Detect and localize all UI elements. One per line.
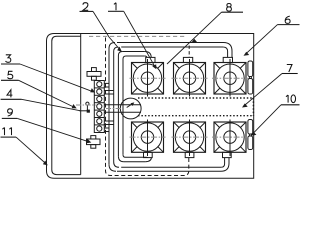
callout leader lines — [16, 11, 282, 164]
pipe P1 right corner down to roller T3 — [224, 43, 233, 58]
leader 9 — [17, 118, 89, 141]
top gray dashed rail — [89, 35, 186, 37]
pipe P1 top run — [117, 42, 224, 44]
conveyor dotted right end — [252, 98, 254, 116]
conveyor dotted top line — [138, 97, 253, 99]
manifold cell dividers — [94, 87, 104, 89]
label 6 — [285, 16, 290, 23]
manifold body — [94, 81, 104, 133]
arrow 2 — [117, 47, 122, 52]
pipe P2 bottom corner — [118, 156, 124, 162]
arrow 6 — [244, 52, 250, 56]
pipe C bottom run to roller B1 — [124, 161, 145, 163]
pipe D bottom run to roller B3 — [117, 170, 221, 172]
roller B3 — [212, 120, 248, 158]
pipe P1 vertical pair — [108, 49, 110, 165]
label 9 — [8, 109, 13, 116]
pump unit — [120, 98, 141, 119]
label 10 — [286, 95, 288, 103]
arrow 8 — [191, 39, 197, 43]
leader 8 — [167, 12, 222, 64]
cross fitting top — [87, 72, 101, 77]
hidden feed to top middle roller (dashed) — [188, 46, 190, 58]
case outer shell — [47, 34, 254, 179]
roller T1 — [130, 57, 166, 96]
case inner wall (left compartment) — [52, 36, 81, 174]
label 5 — [8, 71, 13, 78]
label 3 — [6, 55, 11, 63]
conveyor dotted bottom line — [138, 115, 253, 117]
leader 1 — [124, 11, 155, 67]
leader 3 — [20, 64, 93, 92]
roller T2 — [172, 57, 208, 96]
label 2 — [83, 3, 88, 11]
arrow 10 — [251, 132, 257, 136]
cross fitting bottom — [87, 139, 101, 145]
manifold stub pipes — [104, 82, 109, 84]
pipe P2 top corner — [118, 52, 122, 56]
roller B1 — [130, 120, 166, 158]
roller T3 — [212, 57, 248, 96]
pipe P2 corner down into roller T1 — [145, 52, 152, 58]
arrow 3 — [90, 88, 95, 92]
arrow 7 — [242, 103, 248, 107]
leader 7 — [244, 74, 282, 107]
label 1 — [114, 3, 116, 11]
pipe P1 top corner — [109, 43, 115, 49]
probe axis gray — [76, 104, 97, 106]
pipe P2 vertical pair — [117, 56, 119, 157]
pipe P2 top run to roller T1 — [122, 51, 144, 53]
roller B2 — [172, 120, 208, 158]
label 4 — [7, 90, 12, 98]
leader 11 — [16, 137, 46, 164]
pipe D right corner up into roller B3 — [221, 158, 229, 172]
hidden conduit dashed line — [106, 38, 189, 176]
arrow 5 — [72, 104, 77, 108]
arrow 11 — [43, 161, 48, 166]
leader 5 — [19, 80, 75, 107]
label 7 — [287, 65, 292, 73]
arrow 1 — [152, 64, 156, 69]
pipe P1 bottom corner — [109, 164, 116, 171]
leader 2 — [93, 11, 120, 50]
label 11 — [2, 128, 4, 136]
pipe C corner up into roller B1 — [145, 157, 151, 161]
leader 4 — [22, 99, 81, 110]
six roller units — [130, 57, 249, 157]
leader 6 — [245, 25, 277, 55]
arrowheads — [43, 39, 257, 166]
pump axis gray — [106, 108, 121, 110]
label 8 — [227, 4, 232, 12]
arrow 9 — [87, 139, 92, 143]
hinge capsules right side — [248, 61, 253, 77]
manifold port circles — [97, 82, 102, 87]
sensor probe — [86, 102, 89, 105]
partition panel — [80, 34, 82, 175]
leader 10 — [252, 105, 281, 134]
